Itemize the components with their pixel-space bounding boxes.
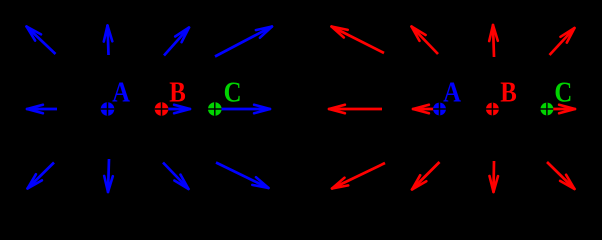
- red field arrow down (right panel): [490, 161, 499, 192]
- point C marker (right panel): [541, 103, 554, 116]
- svg-text:A: A: [443, 76, 461, 108]
- blue field arrow up (left panel): [104, 26, 113, 56]
- red field arrow up-right (right panel): [550, 28, 575, 55]
- red field arrow down-right (right panel): [547, 162, 575, 189]
- red field arrow up (right panel): [489, 25, 498, 57]
- red field arrow up-left shallow (right panel): [332, 27, 385, 54]
- blue field arrow right at point B (left panel): [163, 105, 190, 114]
- blue field arrow up-left (left panel): [27, 27, 56, 55]
- svg-text:C: C: [554, 76, 572, 108]
- red field arrow right at point C (right panel): [548, 105, 575, 114]
- point B marker (left panel): [155, 102, 169, 116]
- blue field arrow left (left panel): [27, 105, 57, 114]
- svg-text:B: B: [500, 76, 517, 108]
- blue field arrow down-left (left panel): [28, 163, 55, 189]
- red field arrow down-left shallow (right panel): [332, 163, 385, 189]
- red field arrow left short at point A (right panel): [413, 105, 437, 114]
- blue field arrow down-right (left panel): [163, 163, 189, 190]
- blue field arrow right at point C (left panel): [216, 105, 270, 114]
- blue field arrow up-right shallow (left panel): [215, 27, 272, 57]
- point C marker (left panel): [208, 102, 222, 116]
- red field arrow left long (right panel): [329, 105, 382, 114]
- blue field arrow up-right (left panel): [164, 28, 189, 56]
- point A marker (right panel): [433, 103, 446, 116]
- blue field arrow down-right shallow (left panel): [216, 163, 269, 189]
- red field arrow down-left (right panel): [412, 162, 440, 190]
- svg-text:B: B: [169, 76, 186, 108]
- red field arrow up-left (right panel): [412, 27, 439, 55]
- point A marker (left panel): [101, 102, 115, 116]
- svg-text:A: A: [112, 76, 130, 108]
- blue field arrow down (left panel): [104, 159, 113, 192]
- svg-text:C: C: [224, 76, 242, 108]
- point B marker (right panel): [486, 103, 499, 116]
